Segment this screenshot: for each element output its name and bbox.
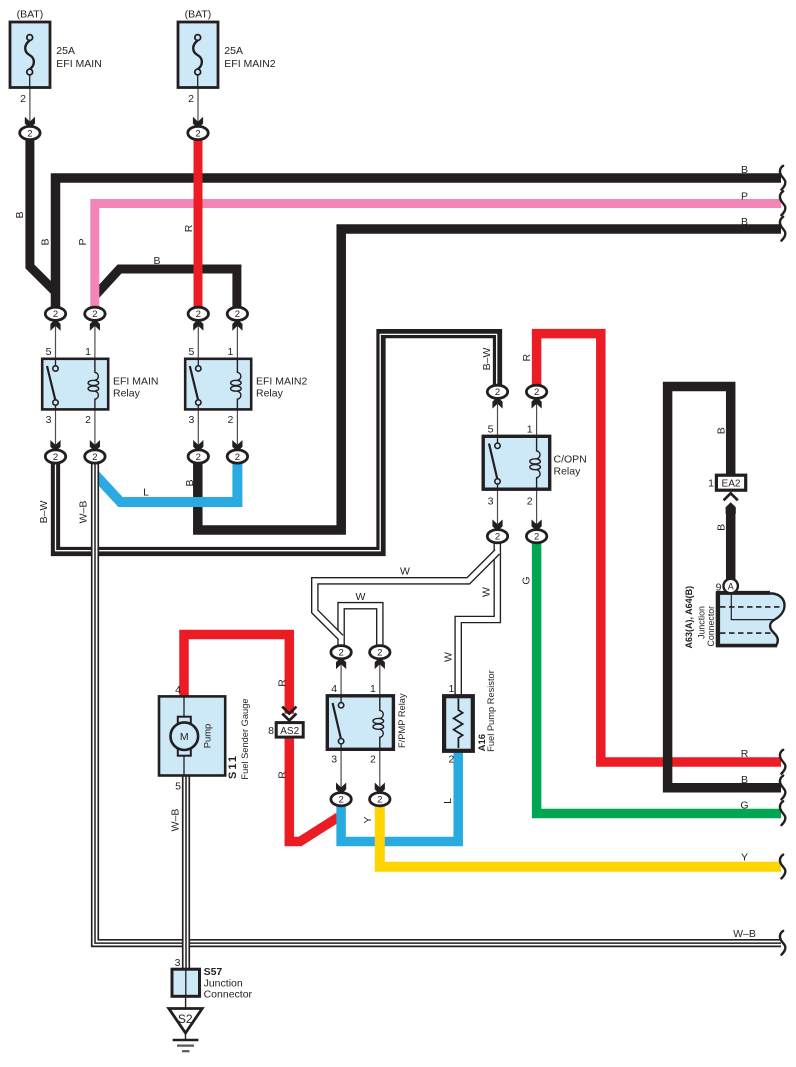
connector oval 2 at F/PMP relay pin 3 xyxy=(331,793,351,806)
svg-text:2: 2 xyxy=(188,93,194,105)
ground S2 xyxy=(169,1009,202,1052)
svg-text:2: 2 xyxy=(449,754,455,766)
svg-text:25A: 25A xyxy=(224,45,243,57)
wire P pink xyxy=(95,204,781,311)
connector oval 2 at F/PMP relay pin 4 xyxy=(331,646,351,659)
svg-text:G: G xyxy=(520,576,532,584)
connector oval 2 at EFI MAIN relay pin 3 xyxy=(45,450,65,463)
svg-text:EFI MAIN: EFI MAIN xyxy=(113,376,159,388)
relay EFI MAIN xyxy=(42,359,108,410)
svg-text:3: 3 xyxy=(188,414,194,426)
svg-text:Y: Y xyxy=(741,852,748,864)
svg-text:2: 2 xyxy=(228,414,234,426)
wire B short (EFI MAIN relay pin1 area to EFI MAIN2 relay pin1) xyxy=(95,269,237,309)
svg-text:W–B: W–B xyxy=(170,809,182,832)
svg-text:AS2: AS2 xyxy=(280,726,299,737)
PINLINES xyxy=(30,88,537,1010)
svg-text:25A: 25A xyxy=(56,45,75,57)
svg-text:B: B xyxy=(14,211,26,218)
svg-text:2: 2 xyxy=(53,309,58,320)
svg-text:L: L xyxy=(143,487,149,499)
connector oval 2 at C/OPN relay pin 3 xyxy=(487,530,507,543)
svg-text:B: B xyxy=(184,479,196,486)
arrow into oval at F/PMP relay pin 3 xyxy=(336,783,346,795)
svg-text:1: 1 xyxy=(527,424,533,436)
wire W B (C/OPN pin3 down to fuel pump resistor) xyxy=(458,542,497,697)
wire EFI MAIN relay pin 5 lead xyxy=(55,320,57,359)
svg-text:9: 9 xyxy=(716,582,722,594)
connector oval 2 at EFI MAIN2 relay pin 1 xyxy=(227,307,247,320)
svg-text:EFI MAIN: EFI MAIN xyxy=(56,58,102,70)
wire S57 to ground S2 xyxy=(185,970,187,1009)
wire W-B long (EFI MAIN relay pin2 down to right edge) xyxy=(95,460,781,943)
wire fuse EFI MAIN2 pin 2 lead xyxy=(197,88,199,129)
svg-text:W–B: W–B xyxy=(733,928,756,940)
svg-text:W: W xyxy=(400,566,410,578)
fuse 25A EFI MAIN2 xyxy=(178,22,218,88)
svg-text:5: 5 xyxy=(175,781,181,793)
arrow into oval at F/PMP relay pin 2 xyxy=(375,783,385,795)
wire W n-shape over F/PMP relay pins xyxy=(341,606,380,648)
svg-text:M: M xyxy=(180,731,189,743)
svg-text:2: 2 xyxy=(534,532,539,543)
fuse 25A EFI MAIN xyxy=(10,22,50,88)
wire C/OPN relay pin 1 lead xyxy=(536,398,538,437)
svg-text:F/PMP Relay: F/PMP Relay xyxy=(397,693,407,748)
svg-text:B: B xyxy=(153,255,160,267)
svg-text:Connector: Connector xyxy=(706,606,716,647)
wire W A (C/OPN pin3 to F/PMP relay pins 4,1) xyxy=(315,551,499,639)
wire break symbols at right edge xyxy=(780,166,785,955)
connector AS2 double chevron xyxy=(282,707,296,721)
svg-text:Pump: Pump xyxy=(202,724,213,749)
wire Y yellow (F/PMP pin2 to right edge) xyxy=(380,803,781,867)
svg-text:4: 4 xyxy=(175,684,181,696)
relay F/PMP xyxy=(327,696,393,750)
svg-text:W: W xyxy=(443,652,455,662)
wire fuse EFI MAIN pin 2 lead xyxy=(29,88,31,129)
arrow into oval at EFI MAIN relay pin 1 xyxy=(90,319,100,331)
wire EFI MAIN2 relay pin 2 lead xyxy=(236,409,238,451)
svg-text:2: 2 xyxy=(196,452,201,463)
arrow into oval at EFI MAIN2 relay pin 5 xyxy=(193,319,203,331)
connector oval 2 at EFI MAIN relay pin 1 xyxy=(85,307,105,320)
arrow into oval at EFI MAIN relay pin 3 xyxy=(50,440,60,452)
ARROWS xyxy=(25,117,738,795)
wire EFI MAIN2 relay pin 5 lead xyxy=(197,320,199,359)
svg-text:5: 5 xyxy=(188,346,194,358)
arrow into oval at EFI MAIN relay pin 2 xyxy=(90,440,100,452)
svg-text:2: 2 xyxy=(495,532,500,543)
svg-text:2: 2 xyxy=(338,648,343,659)
junction connector S57 xyxy=(172,969,200,996)
arrow into oval at EFI MAIN relay pin 5 xyxy=(50,319,60,331)
wire F/PMP relay pin 2 lead xyxy=(379,749,381,793)
connector oval 2 at EFI MAIN relay pin 2 xyxy=(85,450,105,463)
connector oval 2 below fuse EFI MAIN xyxy=(20,126,40,139)
wire R red (fuel pump to AS2 to F/PMP pin3) xyxy=(184,635,289,714)
arrow into oval at C/OPN relay pin 2 xyxy=(532,519,542,531)
svg-text:2: 2 xyxy=(92,309,97,320)
wire L blue (EFI MAIN relay pin2 to EFI MAIN2 relay pin2) xyxy=(95,460,237,502)
svg-text:Connector: Connector xyxy=(204,989,253,1001)
svg-text:5: 5 xyxy=(488,424,494,436)
svg-text:B: B xyxy=(741,774,748,786)
svg-text:B–W: B–W xyxy=(38,501,50,524)
svg-text:2: 2 xyxy=(235,309,240,320)
wire EFI MAIN2 relay pin 1 lead xyxy=(236,320,238,359)
svg-text:R: R xyxy=(277,771,289,779)
arrow into oval at EFI MAIN2 relay pin 1 xyxy=(232,319,242,331)
svg-text:Relay: Relay xyxy=(113,388,141,400)
svg-text:R: R xyxy=(521,353,533,361)
connector oval 2 at F/PMP relay pin 1 xyxy=(370,646,390,659)
svg-text:3: 3 xyxy=(331,754,337,766)
arrow into oval at EFI MAIN2 relay pin 3 xyxy=(193,440,203,452)
svg-text:2: 2 xyxy=(235,452,240,463)
wire W-B (fuel pump to S57) xyxy=(182,774,190,970)
svg-text:4: 4 xyxy=(331,683,337,695)
wire B second horizontal (from EFI MAIN2 relay pin3 to right edge) xyxy=(198,229,781,530)
svg-text:C/OPN: C/OPN xyxy=(554,454,587,466)
fuel pump resistor A16 xyxy=(444,696,473,751)
svg-text:2: 2 xyxy=(370,754,376,766)
svg-text:5: 5 xyxy=(46,346,52,358)
svg-text:2: 2 xyxy=(377,795,382,806)
wire B from fuse 1 xyxy=(30,138,54,291)
svg-text:A: A xyxy=(728,582,734,592)
svg-text:B: B xyxy=(741,216,748,228)
svg-text:2: 2 xyxy=(338,795,343,806)
wire R red from fuse 2 xyxy=(194,138,203,309)
svg-text:2: 2 xyxy=(92,452,97,463)
connector oval 2 at C/OPN relay pin 1 xyxy=(526,385,546,398)
relay C/OPN xyxy=(483,436,550,489)
arrow into oval at C/OPN relay pin 5 xyxy=(492,397,502,409)
svg-text:EA2: EA2 xyxy=(722,479,741,490)
svg-text:B: B xyxy=(716,524,728,531)
svg-text:B: B xyxy=(741,164,748,176)
wire R red (C/OPN pin1 up over and down right side) xyxy=(537,334,781,762)
svg-text:Fuel Pump Resistor: Fuel Pump Resistor xyxy=(486,670,496,752)
svg-text:8: 8 xyxy=(268,725,274,737)
svg-text:EFI MAIN2: EFI MAIN2 xyxy=(224,58,276,70)
svg-text:B–W: B–W xyxy=(481,348,493,371)
junction connector A63(A), A64(B) xyxy=(716,579,785,647)
svg-text:2: 2 xyxy=(53,452,58,463)
svg-text:W: W xyxy=(356,591,366,603)
wire F/PMP relay pin 1 lead xyxy=(379,658,381,696)
arrow into oval below fuse EFI MAIN2 xyxy=(193,117,203,129)
arrowhead on EA2 wire xyxy=(726,502,736,514)
connector EA2 chevron xyxy=(724,493,738,500)
svg-text:(BAT): (BAT) xyxy=(185,9,212,21)
wire C/OPN relay pin 2 lead xyxy=(536,489,538,530)
svg-text:B: B xyxy=(716,427,728,434)
svg-text:R: R xyxy=(741,748,749,760)
wire EFI MAIN relay pin 2 lead xyxy=(94,409,96,451)
connector oval 2 at EFI MAIN2 relay pin 5 xyxy=(188,307,208,320)
svg-text:EFI MAIN2: EFI MAIN2 xyxy=(256,376,308,388)
svg-text:2: 2 xyxy=(534,387,539,398)
svg-text:1: 1 xyxy=(85,346,91,358)
svg-text:3: 3 xyxy=(175,957,181,969)
wire C/OPN relay pin 3 lead xyxy=(497,489,499,530)
svg-text:2: 2 xyxy=(527,496,533,508)
svg-text:L: L xyxy=(442,798,454,804)
svg-text:W–B: W–B xyxy=(78,501,90,524)
svg-text:R: R xyxy=(183,224,195,232)
wire F/PMP relay pin 3 lead xyxy=(340,749,342,793)
connector oval 2 at F/PMP relay pin 2 xyxy=(370,793,390,806)
wire EFI MAIN relay pin 3 lead xyxy=(55,409,57,451)
svg-text:R: R xyxy=(277,679,289,687)
svg-text:A63(A), A64(B): A63(A), A64(B) xyxy=(684,586,694,649)
svg-text:2: 2 xyxy=(196,309,201,320)
fuel pump / sender gauge S11 xyxy=(159,696,225,775)
svg-text:S57: S57 xyxy=(204,966,223,978)
svg-text:S11: S11 xyxy=(227,754,239,779)
OVALS xyxy=(20,126,547,805)
svg-text:2: 2 xyxy=(85,414,91,426)
svg-text:Relay: Relay xyxy=(256,388,284,400)
svg-text:2: 2 xyxy=(20,93,26,105)
svg-text:(BAT): (BAT) xyxy=(17,9,44,21)
arrow into oval below fuse EFI MAIN xyxy=(25,117,35,129)
wire B (EA2 / junction connector to right edge) xyxy=(668,387,781,788)
svg-text:P: P xyxy=(77,238,89,245)
svg-text:1: 1 xyxy=(708,478,714,490)
wire F/PMP relay pin 4 lead xyxy=(340,658,342,696)
connector oval 2 at EFI MAIN2 relay pin 3 xyxy=(188,450,208,463)
relay EFI MAIN2 xyxy=(185,359,251,410)
arrow into oval at C/OPN relay pin 1 xyxy=(532,397,542,409)
arrow into oval at F/PMP relay pin 1 xyxy=(375,657,385,669)
wire B top horizontal to right edge xyxy=(56,178,782,310)
svg-text:G: G xyxy=(740,799,748,811)
svg-text:1: 1 xyxy=(228,346,234,358)
wire B-W (EFI MAIN relay pin3 to C/OPN relay pin5) xyxy=(56,334,498,552)
svg-text:2: 2 xyxy=(377,648,382,659)
arrow into oval at F/PMP relay pin 4 xyxy=(336,657,346,669)
wire EFI MAIN relay pin 1 lead xyxy=(94,320,96,359)
wire C/OPN relay pin 5 lead xyxy=(497,398,499,437)
svg-text:2: 2 xyxy=(495,387,500,398)
svg-text:1: 1 xyxy=(370,683,376,695)
svg-text:2: 2 xyxy=(27,128,32,139)
connector AS2 xyxy=(276,723,303,738)
arrow into oval at EFI MAIN2 relay pin 2 xyxy=(232,440,242,452)
svg-text:Relay: Relay xyxy=(554,466,582,478)
svg-text:3: 3 xyxy=(46,414,52,426)
svg-text:2: 2 xyxy=(195,128,200,139)
connector oval 2 at EFI MAIN2 relay pin 2 xyxy=(227,450,247,463)
wire G green (C/OPN pin2 to right edge) xyxy=(537,540,781,814)
wire L blue (F/PMP pin3 to fuel pump resistor pin2) xyxy=(341,749,458,842)
connector oval 2 below fuse EFI MAIN2 xyxy=(188,126,208,139)
connector EA2 xyxy=(716,475,745,490)
connector oval 2 at EFI MAIN relay pin 5 xyxy=(45,307,65,320)
wire EFI MAIN2 relay pin 3 lead xyxy=(197,409,199,451)
connector oval 2 at C/OPN relay pin 2 xyxy=(526,530,546,543)
svg-text:Y: Y xyxy=(362,816,374,823)
connector oval 2 at C/OPN relay pin 5 xyxy=(487,385,507,398)
svg-text:B: B xyxy=(40,238,52,245)
svg-text:Fuel Sender Gauge: Fuel Sender Gauge xyxy=(240,698,250,779)
svg-text:S2: S2 xyxy=(178,1012,193,1026)
svg-text:P: P xyxy=(741,191,748,203)
svg-text:3: 3 xyxy=(488,496,494,508)
arrow into oval at C/OPN relay pin 3 xyxy=(492,519,502,531)
svg-text:W: W xyxy=(481,587,493,597)
svg-text:1: 1 xyxy=(449,683,455,695)
